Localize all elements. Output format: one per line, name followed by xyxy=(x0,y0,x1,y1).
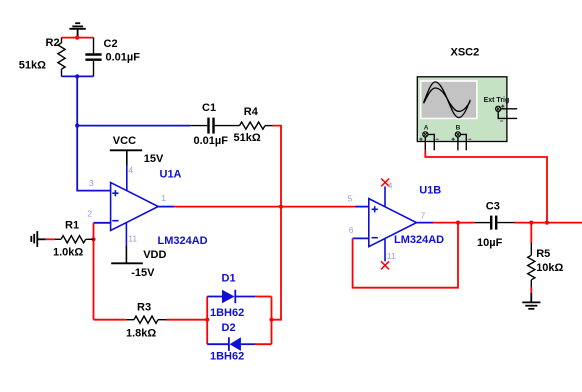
svg-text:4: 4 xyxy=(388,180,393,190)
capacitor C1 xyxy=(190,102,239,147)
svg-text:7: 7 xyxy=(421,211,426,221)
wire: blue vertical from node down to U1A + input xyxy=(77,76,110,190)
wire: top node red (R2 top to C2 top) xyxy=(62,37,94,39)
terminal B xyxy=(455,132,460,137)
wire: loop right rail (red) xyxy=(271,297,273,345)
junction: loop left node xyxy=(205,318,209,322)
svg-text:XSC2: XSC2 xyxy=(451,47,480,59)
wire: D2 to right rail (red) xyxy=(255,343,272,345)
svg-text:Ext Trig: Ext Trig xyxy=(484,97,510,104)
power VCC xyxy=(110,135,164,166)
capacitor C2 xyxy=(85,38,140,77)
ground (left, at R1) xyxy=(31,231,45,247)
svg-text:51kΩ: 51kΩ xyxy=(19,60,46,72)
resistor R5 xyxy=(528,223,564,287)
svg-text:51kΩ: 51kΩ xyxy=(234,132,261,144)
op-amp U1A xyxy=(111,169,208,248)
terminal Ext Trig xyxy=(496,106,501,111)
junction: R5 node xyxy=(529,221,533,225)
wire: branch to C1 (blue) xyxy=(77,125,190,127)
wire: loop left rail (red) xyxy=(206,297,208,345)
power VDD xyxy=(111,249,166,279)
junction: C1 branch node xyxy=(75,124,79,128)
svg-text:D2: D2 xyxy=(222,322,236,334)
svg-text:R4: R4 xyxy=(244,106,259,118)
wire: ground to R1 (red segment) xyxy=(46,238,55,240)
svg-text:0.01µF: 0.01µF xyxy=(194,135,229,147)
svg-text:VDD: VDD xyxy=(143,249,166,261)
svg-text:D1: D1 xyxy=(222,273,236,285)
svg-text:1.8kΩ: 1.8kΩ xyxy=(126,328,156,340)
ground (below R5) xyxy=(522,293,540,309)
svg-text:A: A xyxy=(424,124,429,131)
svg-text:R1: R1 xyxy=(65,219,79,231)
wire: U1B output (blue stub then red) xyxy=(417,222,434,224)
svg-text:C2: C2 xyxy=(104,38,118,50)
wire: U1B feedback loop (red) xyxy=(353,223,458,288)
wire: U1A output (blue stub then red) xyxy=(158,206,174,208)
wire: U1A - input (blue) xyxy=(94,222,111,224)
svg-text:2: 2 xyxy=(87,209,92,219)
resistor R2 xyxy=(19,37,65,76)
svg-text:C3: C3 xyxy=(486,201,500,213)
svg-text:1BH62: 1BH62 xyxy=(210,351,244,363)
svg-text:11: 11 xyxy=(128,234,137,244)
op-amp U1B xyxy=(369,184,444,246)
svg-text:11: 11 xyxy=(387,251,396,261)
wire: U1B - input stub (blue) xyxy=(353,237,369,239)
junction: output node xyxy=(279,205,283,209)
svg-text:3: 3 xyxy=(89,178,94,188)
svg-text:1.0kΩ: 1.0kΩ xyxy=(53,247,83,259)
junction: top node xyxy=(75,36,79,40)
svg-text:1: 1 xyxy=(161,193,166,203)
wire: output node down to diode loop (red) xyxy=(272,207,282,320)
diode D2 xyxy=(207,322,255,363)
svg-text:-15V: -15V xyxy=(131,267,155,279)
pin 11 stub U1B with X (no connect) xyxy=(384,239,386,262)
wire: U1B + input stub (blue) xyxy=(355,206,369,208)
svg-text:VCC: VCC xyxy=(113,135,136,147)
svg-text:R3: R3 xyxy=(137,302,151,314)
junction: loop right node xyxy=(269,318,273,322)
resistor R1 xyxy=(53,219,94,258)
capacitor C3 xyxy=(474,201,514,249)
svg-text:R5: R5 xyxy=(536,248,550,260)
pin 11 stub U1A xyxy=(125,223,127,246)
diode D1 xyxy=(207,273,256,320)
wire: R3 to diode loop (red) xyxy=(167,319,208,321)
svg-text:R2: R2 xyxy=(46,37,60,49)
terminal A xyxy=(423,132,428,137)
svg-text:U1B: U1B xyxy=(419,184,441,196)
wire: R4 to output node (red) xyxy=(273,126,281,207)
svg-text:10µF: 10µF xyxy=(477,237,503,249)
junction: bottom node xyxy=(75,74,79,78)
resistor R4 xyxy=(234,106,273,144)
wire: bottom node blue (R2 bottom to C2 bottom) xyxy=(62,75,94,77)
svg-text:U1A: U1A xyxy=(160,169,182,181)
oscilloscope XSC2 xyxy=(417,47,517,151)
svg-text:6: 6 xyxy=(349,225,354,235)
pin 4 stub U1A xyxy=(126,166,128,191)
svg-text:1BH62: 1BH62 xyxy=(210,307,244,319)
svg-text:0.01µF: 0.01µF xyxy=(106,52,141,64)
pin 4 stub U1B with X (no connect) xyxy=(384,186,386,206)
svg-text:C1: C1 xyxy=(202,102,216,114)
svg-text:10kΩ: 10kΩ xyxy=(536,262,563,274)
resistor R3 xyxy=(126,302,167,340)
svg-text:B: B xyxy=(456,124,461,131)
svg-text:LM324AD: LM324AD xyxy=(158,235,208,247)
svg-text:4: 4 xyxy=(128,165,133,175)
wire: R5 to ground (red stub) xyxy=(530,287,532,293)
svg-text:5: 5 xyxy=(348,194,353,204)
svg-text:LM324AD: LM324AD xyxy=(394,234,444,246)
wire: C3 to right (red, off the page) xyxy=(515,222,582,224)
wire: inverting node red vertical (to R1 and R3) xyxy=(93,223,95,320)
scope leads xyxy=(425,109,517,151)
junction: R1 node xyxy=(91,237,95,241)
junction: U1B output node xyxy=(456,221,460,225)
svg-text:15V: 15V xyxy=(144,153,164,165)
wire: scope channel A to output node (red) xyxy=(425,150,547,222)
wire: D1 to right rail (red) xyxy=(256,296,272,298)
ground (top, above R2/C2) xyxy=(69,23,85,36)
wire: R3 net red left part xyxy=(94,319,127,321)
junction: scope node xyxy=(545,221,549,225)
